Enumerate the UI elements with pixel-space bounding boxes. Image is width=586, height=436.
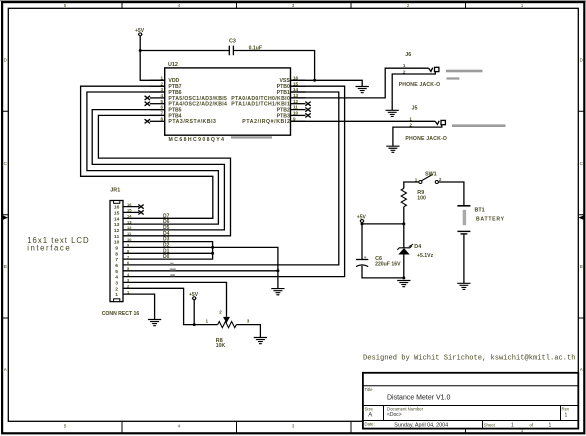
no-connect X pin 5 bbox=[145, 102, 150, 106]
switch SW1 bbox=[415, 172, 442, 184]
svg-text:2: 2 bbox=[439, 177, 442, 182]
wire C3 to VSS pin 16 bbox=[233, 51, 314, 81]
net label D4 bbox=[163, 231, 170, 237]
wire JR1 pin 9 (D2) to ground bbox=[123, 247, 278, 288]
svg-text:B: B bbox=[4, 264, 7, 269]
svg-text:3: 3 bbox=[292, 3, 295, 8]
wire +5V to R8 pin 1 net bbox=[193, 300, 195, 325]
svg-text:12: 12 bbox=[127, 225, 132, 230]
junction pin5/ground net bbox=[276, 269, 279, 272]
svg-text:5: 5 bbox=[64, 3, 67, 8]
svg-text:13: 13 bbox=[114, 222, 120, 228]
svg-text:Size: Size bbox=[365, 406, 374, 411]
svg-text:BATTERY: BATTERY bbox=[476, 216, 505, 222]
no-connect X pin 8 bbox=[145, 119, 150, 123]
U12 pin numbers 1-8 bbox=[160, 75, 163, 121]
wire J5 pin 2 to ground bbox=[393, 125, 442, 146]
svg-text:1: 1 bbox=[409, 116, 412, 121]
svg-text:6: 6 bbox=[115, 263, 118, 269]
wire +5V to VDD pin 1 bbox=[140, 36, 165, 80]
ground R8 bbox=[254, 338, 267, 344]
svg-text:D0: D0 bbox=[163, 254, 170, 260]
wire J6 pin 2 to ground bbox=[392, 72, 435, 111]
svg-text:10K: 10K bbox=[216, 343, 226, 349]
JR1 pin numbers 16-1 bbox=[127, 202, 132, 295]
svg-text:4: 4 bbox=[160, 93, 163, 98]
svg-text:4: 4 bbox=[115, 275, 118, 281]
svg-text:PHONE JACK-O: PHONE JACK-O bbox=[405, 136, 447, 142]
net label D2 bbox=[163, 242, 170, 248]
svg-text:220uF 16V: 220uF 16V bbox=[375, 261, 401, 267]
svg-text:1: 1 bbox=[549, 423, 552, 429]
U12 body outline bbox=[165, 68, 291, 135]
wire PTB5 pin 6 to JR1 pin 12 (D5) bbox=[92, 110, 224, 230]
svg-text:PHONE JACK-O: PHONE JACK-O bbox=[399, 82, 441, 88]
svg-text:SW1: SW1 bbox=[425, 172, 437, 178]
svg-text:3: 3 bbox=[247, 319, 250, 324]
svg-text:12: 12 bbox=[293, 99, 299, 104]
wire PTB1 pin 14 to JR1 pin 6 bbox=[123, 92, 339, 265]
junction +5V/R8 bbox=[193, 323, 196, 326]
no-connect X pin 11 bbox=[305, 108, 310, 112]
net label D0 bbox=[163, 254, 170, 260]
no-connect X JR1 pin 15 bbox=[138, 210, 143, 214]
resistor R9 100 bbox=[401, 188, 426, 206]
svg-text:8: 8 bbox=[160, 116, 163, 121]
wire SW1 pin 2 to BT1 bbox=[439, 182, 464, 206]
wire PTA0 pin 13 to J6 pin 1 bbox=[291, 68, 429, 98]
junction D4/ground rail bbox=[402, 276, 405, 279]
svg-text:Title: Title bbox=[365, 387, 374, 392]
gray redaction bar right of J6 bbox=[446, 70, 483, 73]
junction R9/D4 bbox=[402, 222, 405, 225]
+5V power symbol middle bbox=[189, 292, 199, 300]
wire PTA2 pin 9 to J5 pin 1 bbox=[291, 120, 436, 122]
JR1 pin labels 16-1 inside body bbox=[114, 205, 120, 299]
svg-text:1: 1 bbox=[403, 63, 406, 68]
net label D3 bbox=[163, 237, 170, 243]
svg-text:J5: J5 bbox=[412, 106, 418, 112]
microcontroller U12 MC68HC908QY4 bbox=[150, 62, 306, 143]
U12 left pin names bbox=[168, 78, 227, 125]
gray redaction bar below U12 bbox=[231, 136, 272, 138]
svg-text:2: 2 bbox=[407, 3, 410, 8]
wire PTB4 pin 7 to JR1 pin 11 (D4) bbox=[98, 115, 230, 235]
svg-text:10: 10 bbox=[127, 237, 132, 242]
svg-text:10: 10 bbox=[114, 240, 120, 246]
ground JR1 pin 1 bbox=[148, 320, 161, 326]
svg-text:15: 15 bbox=[114, 210, 120, 216]
svg-text:7: 7 bbox=[115, 257, 118, 263]
wire +5V rail bbox=[362, 223, 404, 260]
gray net label JR1 pin 4 bbox=[170, 274, 175, 276]
connector JR1 CONN RECT 16 bbox=[102, 187, 140, 316]
wire PTB6 pin 3 to JR1 pin 13 (D6) bbox=[87, 92, 219, 224]
svg-text:12: 12 bbox=[114, 228, 120, 234]
wire C6 to ground rail bbox=[362, 266, 404, 278]
battery BT1 bbox=[457, 206, 504, 234]
svg-text:CONN RECT 16: CONN RECT 16 bbox=[102, 311, 140, 317]
wire PTB0 pin 15 to JR1 pin 4 bbox=[123, 86, 345, 276]
svg-text:+5.1Vz: +5.1Vz bbox=[417, 253, 434, 259]
svg-text:5: 5 bbox=[160, 99, 163, 104]
svg-text:16: 16 bbox=[114, 205, 120, 211]
no-connect X pin 4 bbox=[145, 96, 150, 100]
U12 pin stubs 1-16 bbox=[150, 80, 306, 121]
ground BT1 bbox=[457, 283, 470, 289]
svg-text:14: 14 bbox=[127, 214, 132, 219]
svg-text:U12: U12 bbox=[168, 62, 178, 68]
potentiometer R8 10K bbox=[206, 310, 250, 350]
svg-text:A: A bbox=[368, 413, 372, 419]
svg-text:1: 1 bbox=[115, 292, 118, 298]
svg-text:10: 10 bbox=[293, 111, 299, 116]
svg-text:4: 4 bbox=[178, 3, 181, 8]
no-connect X pin 12 bbox=[305, 102, 310, 106]
svg-text:15: 15 bbox=[127, 208, 132, 213]
+5V power symbol top bbox=[135, 28, 145, 36]
svg-text:Rev: Rev bbox=[562, 406, 570, 411]
net label D7 bbox=[163, 213, 170, 219]
svg-text:1: 1 bbox=[511, 423, 514, 429]
wire BT1 to ground bbox=[463, 234, 465, 283]
wire VSS pin 16 to ground bbox=[291, 80, 363, 86]
svg-text:2: 2 bbox=[115, 286, 118, 292]
svg-text:9: 9 bbox=[115, 245, 118, 251]
svg-text:+5V: +5V bbox=[135, 28, 145, 34]
wire R9 to SW1 pin 1 bbox=[404, 182, 419, 188]
svg-text:D4: D4 bbox=[414, 244, 421, 250]
wire JR1 pin 2 to R8 pin 1 bbox=[123, 288, 218, 324]
capacitor C6 220uF 16V bbox=[356, 256, 401, 267]
phone jack J6 bbox=[399, 52, 441, 88]
svg-text:8: 8 bbox=[115, 251, 118, 257]
wire JR1 pin 5 to ground net bbox=[123, 270, 278, 272]
wire PTB7 pin 2 to JR1 pin 14 (D7) bbox=[81, 86, 213, 218]
gray redaction bar right of J5 bbox=[452, 124, 506, 127]
ground J5 bbox=[386, 146, 399, 152]
svg-text:PTA3/RST#/KBI3: PTA3/RST#/KBI3 bbox=[168, 119, 216, 125]
svg-text:11: 11 bbox=[293, 105, 298, 110]
svg-text:5: 5 bbox=[64, 423, 67, 428]
svg-text:3: 3 bbox=[292, 423, 295, 428]
note 16x1 text LCD interface bbox=[27, 236, 89, 253]
author note bbox=[363, 355, 576, 363]
svg-text:13: 13 bbox=[127, 219, 132, 224]
svg-text:100: 100 bbox=[417, 195, 426, 201]
net label D5 bbox=[163, 225, 170, 231]
svg-text:J6: J6 bbox=[405, 52, 411, 58]
svg-text:MC68HC908QY4: MC68HC908QY4 bbox=[169, 137, 225, 143]
junction C3/VSS node bbox=[313, 79, 316, 82]
gray redaction bar 2 right of J6 bbox=[447, 77, 460, 79]
svg-text:14: 14 bbox=[114, 216, 120, 222]
ground J6 bbox=[386, 110, 399, 116]
U12 pin numbers 16-9 bbox=[293, 75, 299, 121]
svg-text:B: B bbox=[580, 264, 583, 269]
svg-text:PTA2/IRQ#/KBI2: PTA2/IRQ#/KBI2 bbox=[242, 119, 290, 125]
svg-text:Sunday, April 04, 2004: Sunday, April 04, 2004 bbox=[394, 422, 448, 428]
zener diode D4 +5.1Vz bbox=[397, 224, 433, 278]
wire R9 to +5V rail bbox=[403, 207, 405, 224]
net label D1 bbox=[163, 248, 170, 254]
svg-text:C3: C3 bbox=[229, 39, 236, 45]
junction D1 tie bbox=[211, 252, 214, 255]
wire JR1 pin 3 to R8 wiper bbox=[123, 282, 227, 316]
svg-text:4: 4 bbox=[178, 423, 181, 428]
svg-text:<Doc>: <Doc> bbox=[387, 412, 402, 418]
wire JR1 pin 10 (D3) tie bbox=[123, 242, 213, 260]
svg-text:Distance Meter V1.0: Distance Meter V1.0 bbox=[387, 395, 451, 402]
svg-text:1: 1 bbox=[565, 413, 568, 419]
net label D6 bbox=[163, 219, 170, 225]
no-connect X JR1 pin 16 bbox=[138, 205, 143, 209]
svg-text:Sheet: Sheet bbox=[484, 423, 496, 428]
wire R8 pin 3 to ground bbox=[236, 325, 260, 338]
ground LCD data bbox=[271, 289, 284, 295]
svg-text:JR1: JR1 bbox=[110, 187, 120, 193]
gray net label JR1 pin 5 bbox=[170, 268, 176, 270]
svg-text:BT1: BT1 bbox=[475, 207, 485, 213]
wire JR1 pin 1 to ground bbox=[123, 294, 155, 319]
ground VSS bbox=[356, 87, 369, 93]
svg-text:Date:: Date: bbox=[365, 422, 375, 427]
title block bbox=[363, 373, 578, 429]
svg-text:2: 2 bbox=[219, 310, 222, 315]
svg-text:3: 3 bbox=[115, 281, 118, 287]
junction +5V/C6 bbox=[361, 222, 364, 225]
svg-text:1: 1 bbox=[206, 319, 209, 324]
svg-text:interface: interface bbox=[27, 244, 69, 253]
no-connect X pin 10 bbox=[305, 113, 310, 117]
svg-text:16: 16 bbox=[127, 202, 132, 207]
svg-text:Document Number: Document Number bbox=[387, 406, 424, 411]
phone jack J5 bbox=[405, 106, 447, 142]
svg-text:+5V: +5V bbox=[357, 214, 367, 220]
svg-text:11: 11 bbox=[114, 234, 119, 240]
+5V power symbol right bbox=[357, 214, 367, 222]
svg-text:1: 1 bbox=[521, 3, 524, 8]
junction D2 tie bbox=[211, 246, 214, 249]
U12 right pin names bbox=[231, 78, 290, 125]
gray net label JR1 pin 6 bbox=[170, 263, 173, 265]
junction +5V/C3 node bbox=[139, 49, 142, 52]
wire +5V node to C3 bbox=[140, 50, 229, 52]
svg-text:+5V: +5V bbox=[189, 292, 199, 298]
wire JR1 pin 8 (D1) bbox=[123, 252, 213, 254]
svg-text:5: 5 bbox=[115, 269, 118, 275]
ground regulator rail bbox=[397, 281, 410, 287]
svg-text:Designed by Wichit Sirichote,: Designed by Wichit Sirichote, kswichit@k… bbox=[363, 355, 576, 363]
capacitor C3 0.1uF bbox=[229, 39, 262, 56]
